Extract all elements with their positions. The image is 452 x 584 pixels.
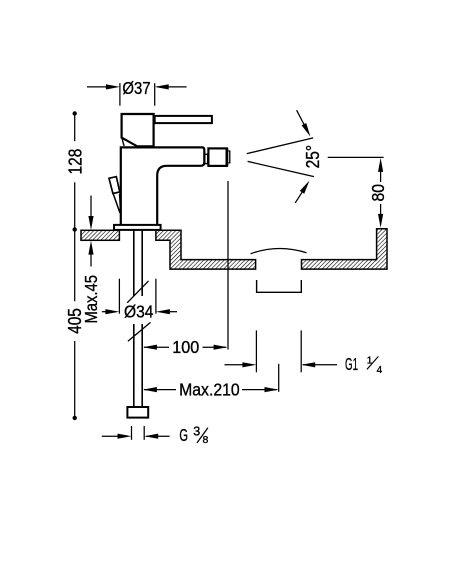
base plate <box>114 225 161 230</box>
dim G 3/8 lines <box>102 426 170 440</box>
svg-text:4: 4 <box>377 365 383 376</box>
dim G 3/8 text <box>179 424 208 446</box>
dim dot middle <box>73 227 77 231</box>
svg-text:25°: 25° <box>303 145 323 169</box>
threaded shank left line <box>133 230 135 407</box>
dim 100 arrows <box>143 345 157 350</box>
dim 80 vertical line <box>380 170 382 216</box>
dim Max.210 line <box>144 364 279 392</box>
svg-text:Max.45: Max.45 <box>81 275 101 324</box>
svg-text:100: 100 <box>172 337 199 357</box>
lever handle <box>155 116 212 123</box>
cartridge head <box>122 114 154 146</box>
svg-text:G: G <box>179 425 188 445</box>
water surface arc over drain <box>251 249 307 254</box>
dim 100 line <box>144 181 228 350</box>
shank break slash upper <box>127 281 148 303</box>
dim 128-405 chain line <box>74 114 76 418</box>
dim 80 arrows <box>378 158 383 172</box>
svg-text:G1: G1 <box>345 354 358 374</box>
aerator tip <box>228 151 229 163</box>
svg-text:Ø34: Ø34 <box>124 302 154 322</box>
dim O34 arrows <box>105 309 119 314</box>
svg-text:1: 1 <box>367 355 373 366</box>
faucet body outline <box>121 147 205 225</box>
aerator body <box>208 148 226 166</box>
pop-up rod <box>113 194 120 213</box>
svg-text:Ø37: Ø37 <box>122 78 150 98</box>
supply fitting <box>127 407 148 418</box>
dim Max.45 lower arrow <box>90 253 92 267</box>
svg-text:80: 80 <box>368 184 388 202</box>
head inner wedge line <box>122 139 124 146</box>
dim G1 1/4 lines <box>225 330 338 372</box>
dim G1 1/4 arrows <box>242 362 256 367</box>
svg-text:Max.210: Max.210 <box>179 380 240 400</box>
dim O37 arrows <box>106 84 120 89</box>
dim O34 lines <box>102 279 177 314</box>
dim dot top <box>73 111 77 115</box>
svg-text:3: 3 <box>193 424 200 438</box>
drain bracket <box>257 280 302 292</box>
spray angle lower ray <box>248 161 314 176</box>
angle arrow lower <box>295 190 303 203</box>
dim 80 reference line <box>328 156 384 158</box>
svg-text:8: 8 <box>203 434 209 446</box>
threaded shank right line <box>141 230 143 407</box>
dim dot bottom <box>73 416 77 420</box>
svg-text:128: 128 <box>66 149 86 175</box>
pop-up rod knob <box>109 177 120 194</box>
spout neck <box>205 154 208 163</box>
dim O37 lines <box>87 83 187 106</box>
dim G1 1/4 text <box>345 354 383 376</box>
shank break slash lower <box>128 322 151 341</box>
ceramic rim left band <box>81 230 119 240</box>
angle arrow upper <box>297 110 305 126</box>
spray angle upper ray <box>247 138 313 154</box>
ceramic rim right stepped section <box>156 230 256 269</box>
dim Max.45 upper arrow <box>90 196 92 219</box>
ceramic rim right section with back wall <box>302 229 388 269</box>
dim G 3/8 arrows <box>118 434 132 439</box>
dim Max.210 arrows <box>143 387 157 392</box>
